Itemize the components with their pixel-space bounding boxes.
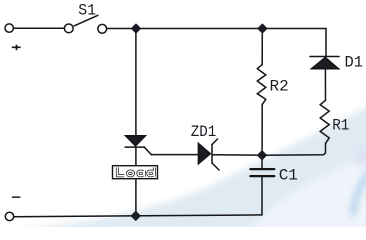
svg-text:C1: C1 <box>279 167 298 185</box>
wire gate to ZD1 <box>151 154 198 156</box>
wire top vertical R2 <box>261 29 263 65</box>
wire R1 bottom corner <box>262 144 326 156</box>
terminal minus <box>5 212 13 220</box>
switch S1 <box>64 24 73 33</box>
svg-text:ZD1: ZD1 <box>191 123 217 141</box>
node B <box>258 25 266 33</box>
wire top left <box>13 27 64 29</box>
svg-text:R2: R2 <box>270 78 289 96</box>
terminal plus <box>5 24 13 32</box>
node A <box>132 25 140 33</box>
capacitor C1 <box>250 155 274 215</box>
wire top right corner down to D1 <box>325 29 327 57</box>
background swoosh corner light <box>248 156 366 232</box>
svg-text:S1: S1 <box>78 2 96 20</box>
wire top middle <box>107 28 326 30</box>
label minus <box>12 196 20 198</box>
node D <box>132 212 140 220</box>
background swoosh tip right edge <box>353 174 366 213</box>
wire SCR to Load <box>135 147 137 166</box>
diode D1 <box>310 57 339 101</box>
load box <box>113 166 158 179</box>
resistor R2 <box>257 65 266 105</box>
background swoosh lower-right <box>25 104 366 232</box>
label Load <box>117 167 154 177</box>
wire bottom rail <box>14 215 262 217</box>
wire load bottom <box>135 179 137 216</box>
wire left vertical from junction A <box>135 29 137 136</box>
svg-text:R1: R1 <box>332 117 349 135</box>
svg-text:D1: D1 <box>345 53 364 71</box>
resistor R1 <box>320 100 329 143</box>
node C <box>258 151 266 159</box>
wire ZD1 to junction C <box>212 154 262 156</box>
SCR Q1 <box>125 136 151 155</box>
background blob right edge <box>354 149 366 167</box>
zener ZD1 <box>198 139 219 170</box>
wire R2 bottom <box>261 105 263 155</box>
label plus <box>12 45 21 51</box>
